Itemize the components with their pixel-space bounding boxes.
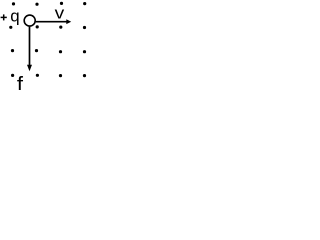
label + (plus of +q) horizontal stroke: [1, 16, 7, 18]
field dot B out of page, row1 col1: [12, 2, 15, 5]
field dot row4 col2: [36, 74, 39, 77]
field dot row3 col3: [59, 50, 62, 53]
field dot row4 col4: [83, 74, 86, 77]
field dot row2 col4: [83, 26, 86, 29]
svg-text:f: f: [17, 72, 24, 90]
field dot row1 col3: [60, 2, 63, 5]
velocity arrowhead: [66, 19, 71, 24]
velocity arrow wire: [36, 21, 67, 23]
force arrow wire: [29, 27, 31, 66]
field dot row3 col1: [11, 49, 14, 52]
field dot row1 col4: [83, 2, 86, 5]
label + (plus of +q) vertical stroke: [3, 14, 5, 20]
field dot row2 col3: [59, 26, 62, 29]
field dot row4 col3: [59, 74, 62, 77]
charge circle +q: [24, 15, 35, 26]
field dot row4 col1: [11, 74, 14, 77]
field dot row2 col2: [36, 25, 39, 28]
field dot row3 col4: [83, 50, 86, 53]
svg-text:v: v: [55, 3, 65, 22]
field dot row1 col2: [35, 3, 38, 6]
svg-text:q: q: [10, 7, 19, 26]
field dot row2 col1: [9, 26, 12, 29]
field dot row3 col2: [35, 49, 38, 52]
force arrowhead: [27, 65, 32, 71]
